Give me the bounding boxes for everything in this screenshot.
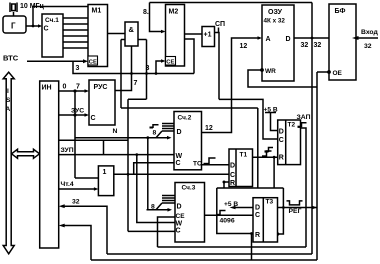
wire AND input 2 stub: [121, 39, 125, 41]
wire Т3 R node down to bottom rail: [251, 234, 253, 261]
feedback bus along top to data bus: [150, 2, 313, 4]
multiplexer М1: [88, 5, 108, 67]
external input wire Вход: [356, 37, 378, 39]
svg-text:0: 0: [63, 84, 67, 91]
bottom rail A to СЕ Сч.3: [158, 246, 307, 248]
svg-text:8: 8: [151, 204, 155, 211]
counter Сч.2: [174, 112, 202, 170]
svg-text:БФ: БФ: [335, 8, 346, 15]
node at generator output: [32, 25, 35, 28]
vertical net from AND output down: [146, 40, 148, 100]
svg-text:4К х 32: 4К х 32: [264, 18, 286, 25]
svg-text:С: С: [91, 115, 96, 122]
crystal resonator BQ1 10 MHz: [10, 3, 17, 17]
svg-text:8: 8: [153, 130, 157, 137]
arrow into С of РУС: [85, 113, 90, 117]
node Т3 R: [250, 232, 253, 235]
svg-text:М1: М1: [92, 8, 102, 15]
vertical from D wire down to Сч.3 D: [147, 138, 149, 210]
wire М1 output to AND gate: [108, 33, 126, 35]
data wire ОЗУ D to БФ: [294, 37, 329, 39]
wire into С of Сч.3: [128, 230, 175, 232]
wire Сч.3 output to Т3 C: [205, 214, 254, 216]
+5 В supply to Т2 D: [265, 113, 278, 131]
svg-text:ЗУС: ЗУС: [71, 108, 84, 115]
wire into ОЕ: [317, 71, 329, 73]
arrow into Сч.1 C: [38, 24, 42, 28]
wire hook up to СЕ of М2: [156, 61, 164, 74]
svg-text:С: С: [44, 26, 49, 33]
wire OR output to Т1 C: [114, 173, 229, 175]
second data wire from ИН: [59, 139, 128, 141]
wire М2 input 8 from feedback bus: [150, 3, 164, 32]
pulse mark on 4096 wire: [217, 214, 221, 216]
svg-text:+1: +1: [204, 32, 212, 39]
arrow into OR gate: [94, 187, 99, 191]
arrow into М2: [161, 30, 166, 34]
svg-text:8.: 8.: [143, 9, 149, 16]
wire +1 output down: [215, 33, 220, 100]
pulse mark at ЗАП: [298, 126, 302, 128]
wire ОЕ control vertical: [316, 72, 318, 260]
svg-text:Сч.1: Сч.1: [45, 17, 59, 24]
node AND bottom to wire 3: [130, 72, 133, 75]
trigger Т1: [229, 149, 253, 187]
pin dot WR: [260, 68, 264, 72]
wire status into ИН: [64, 226, 91, 261]
clock vertical down to Сч.3 C: [127, 99, 129, 231]
node on D wire of Сч.2: [146, 136, 149, 139]
arrow into А: [258, 36, 263, 40]
wire Г to Сч.1 clock: [26, 25, 41, 27]
wire ЗУП to W of Сч.2: [59, 154, 174, 156]
pulse mark at Т2 R: [265, 150, 269, 152]
counter Сч.3: [175, 183, 205, 243]
svg-text:ЗУП: ЗУП: [61, 147, 74, 154]
svg-text:R: R: [230, 180, 235, 187]
arrow into ИН (status): [59, 224, 65, 228]
svg-text:Чт.4: Чт.4: [61, 181, 74, 188]
AND gate &: [125, 22, 138, 46]
node on ЗУС wire: [73, 113, 76, 116]
wire Т1 R to reset rail: [224, 182, 229, 188]
buffer БФ: [329, 4, 356, 80]
svg-text:СЕ: СЕ: [166, 60, 174, 66]
svg-text:ОЕ: ОЕ: [333, 70, 343, 77]
bus transceiver arrow to ИН: [12, 149, 40, 158]
wire ВТС to СЕ of М1: [27, 60, 86, 62]
pin dot ОЕ: [327, 70, 331, 74]
svg-text:ТС: ТС: [193, 161, 202, 168]
wire write-clock to Т2 C: [219, 99, 278, 139]
wire data down to counters D line: [74, 91, 76, 178]
svg-text:+5 В: +5 В: [264, 107, 278, 114]
svg-text:Т2: Т2: [288, 122, 296, 129]
svg-text:N: N: [113, 128, 118, 135]
svg-text:СЕ: СЕ: [176, 213, 186, 220]
svg-text:D: D: [177, 129, 182, 136]
svg-text:I: I: [7, 88, 9, 95]
СЕ enable box of М2: [166, 57, 176, 66]
counters data wire N: [75, 137, 169, 139]
register РУС: [89, 80, 115, 125]
arrow into ИН (32 bus): [59, 204, 65, 208]
multiplexer М2: [166, 5, 185, 67]
wire ЗУС to С of РУС: [59, 114, 87, 116]
wire Т2 R node down to reset rail: [273, 157, 275, 188]
svg-text:А: А: [266, 36, 271, 43]
svg-text:R: R: [279, 155, 284, 162]
svg-text:С: С: [176, 160, 181, 167]
ISA bus arrow: [3, 72, 14, 254]
long control wire to Т2 clock region: [121, 107, 258, 109]
trigger Т3: [253, 198, 278, 242]
node on РЕГ wire: [282, 206, 285, 209]
svg-text:Сч.2: Сч.2: [178, 115, 192, 122]
wire WR of ОЗУ: [248, 70, 317, 87]
svg-text:D: D: [177, 204, 182, 211]
pulse mark on Т1 Q: [262, 155, 267, 157]
trigger Т2: [278, 120, 301, 165]
node Т1 R: [223, 181, 226, 184]
node Т2 R: [273, 156, 276, 159]
svg-text:32: 32: [72, 199, 80, 206]
wire AND output stub right: [138, 39, 147, 41]
OR gate 1: [98, 166, 113, 196]
pulse mark near Сч.2 D: [150, 127, 154, 129]
data bus 0..7 to РУС: [59, 90, 87, 92]
pulse mark РЕГ (inverted): [287, 201, 303, 205]
incrementer block +1: [202, 27, 215, 47]
svg-text:Т3: Т3: [266, 199, 274, 206]
node on 0..7 bus: [73, 89, 76, 92]
svg-text:D: D: [230, 163, 235, 170]
СЕ enable box of М1: [88, 56, 98, 66]
svg-text:12: 12: [240, 43, 248, 50]
svg-text:R: R: [255, 232, 260, 239]
wire СЕ of Сч.3 from bottom rail: [158, 217, 176, 247]
svg-text:WR: WR: [265, 68, 276, 75]
node on wire 3: [155, 72, 158, 75]
svg-text:С: С: [279, 137, 284, 144]
wire D input of Сч.3: [147, 209, 170, 211]
svg-text:С: С: [176, 228, 181, 235]
svg-text:А: А: [6, 106, 11, 113]
wire 32 result bus into ИН: [64, 206, 107, 254]
wire AND bottom pin down to РУС output: [115, 46, 131, 91]
svg-text:D: D: [255, 205, 260, 212]
wire reset down to Т3 R: [217, 188, 251, 234]
svg-text:32: 32: [364, 43, 372, 50]
svg-text:+5 В: +5 В: [224, 201, 238, 208]
wire generator clock up and to M1: [33, 7, 88, 27]
svg-text:12: 12: [205, 125, 213, 132]
wire Т2 Q output ЗАП: [301, 128, 307, 247]
arrow into СЕ of М1: [83, 59, 88, 63]
svg-text:СП: СП: [215, 21, 225, 28]
label СП with stub: [218, 28, 220, 33]
wire down right side to reset rail: [257, 108, 259, 188]
arrow into D of Сч.3: [168, 208, 173, 212]
wire ТС output to Т1 D: [202, 164, 230, 166]
svg-text:Т1: Т1: [240, 152, 248, 159]
svg-text:Сч.3: Сч.3: [182, 185, 196, 192]
svg-text:М2: М2: [169, 9, 179, 16]
svg-text:W: W: [176, 221, 183, 228]
wire from data vertical into OR gate 1: [75, 177, 98, 179]
svg-text:С: С: [255, 212, 260, 219]
address bus 12 from Сч.2 up to ОЗУ А: [202, 38, 261, 133]
svg-text:S: S: [6, 97, 11, 104]
wire into Т3 R: [252, 233, 254, 235]
wire М2 second output down: [185, 39, 195, 74]
arrow +5 В (pointing left): [230, 206, 236, 210]
+5 В supply to Т3 D: [233, 207, 253, 209]
svg-text:1: 1: [103, 169, 107, 176]
wire Т1 Q output to Т2 R: [253, 156, 278, 158]
svg-text:ОЗУ: ОЗУ: [268, 9, 283, 16]
svg-text:Г: Г: [11, 22, 16, 31]
arrow into БФ: [352, 36, 359, 40]
bus comb of Сч.3 D: [156, 196, 175, 210]
wire down from AND input2 to long control line: [120, 40, 122, 109]
node ЗУП to Сч.3 W: [135, 153, 138, 156]
bus Сч.1 to М1 (6 lines): [63, 18, 88, 48]
svg-text:РЕГ: РЕГ: [289, 208, 302, 215]
wire reset right leg down to Т3 side: [278, 188, 284, 234]
svg-text:32: 32: [314, 42, 322, 49]
node at Т3 right edge: [276, 232, 280, 236]
svg-text:СЕ: СЕ: [89, 60, 97, 66]
node AND output net on wire 3: [145, 72, 148, 75]
arrow into D of Сч.2: [167, 136, 172, 140]
generator block Г: [3, 16, 26, 33]
svg-text:3: 3: [76, 65, 80, 72]
RAM block ОЗУ 4К х 32: [262, 5, 294, 81]
node 1-output junction: [127, 173, 130, 176]
svg-text:ИН: ИН: [42, 85, 52, 92]
counter Сч.1: [42, 14, 63, 57]
svg-text:7: 7: [76, 84, 80, 91]
svg-text:ЗАП: ЗАП: [297, 114, 311, 121]
pulse mark on ТС wire: [204, 163, 210, 165]
wire branch to Сч.2 C: [134, 163, 174, 175]
reset rail horizontal: [217, 187, 284, 189]
bottom rail B data 32: [107, 253, 312, 255]
bus comb of Сч.2 D: [156, 124, 174, 138]
svg-text:ВТС: ВТС: [3, 54, 19, 63]
svg-text:4096: 4096: [220, 218, 235, 225]
node data bus: [311, 37, 314, 40]
svg-text:С: С: [230, 172, 235, 179]
svg-text:РУС: РУС: [94, 84, 108, 91]
wire Т3 Q output РЕГ: [278, 207, 318, 209]
link wire between ИН line and ЗУП line: [103, 140, 105, 154]
svg-text:&: &: [129, 25, 135, 34]
wire 3: branch of ВТС down and right to М2: [73, 61, 194, 73]
arrow into РУС: [85, 89, 90, 93]
svg-text:D: D: [279, 129, 284, 136]
arrow into СЕ of М2: [161, 59, 166, 63]
wire М2 output to +1: [185, 33, 203, 35]
jog left to clock vertical: [128, 98, 147, 100]
svg-text:7: 7: [134, 80, 138, 87]
interface block ИН: [40, 81, 59, 248]
wire down to W of Сч.3: [137, 155, 175, 223]
svg-text:Вход: Вход: [361, 29, 378, 36]
svg-text:32: 32: [301, 42, 309, 49]
svg-text:D: D: [286, 36, 291, 43]
arrow at end of РЕГ wire: [312, 206, 318, 210]
bottom rail C: [91, 259, 317, 261]
data bus vertical down to РЕГ rail: [311, 3, 313, 255]
wire Чт.4 into OR gate: [59, 188, 96, 190]
